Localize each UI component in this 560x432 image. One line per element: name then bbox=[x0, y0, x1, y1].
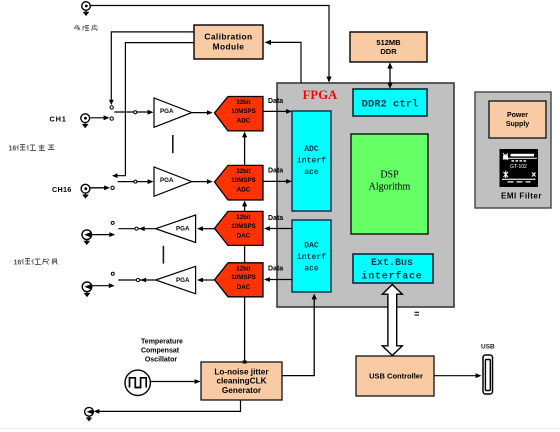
svg-text:ADC: ADC bbox=[304, 145, 319, 154]
power supply panel bbox=[475, 92, 551, 208]
svg-text:interf: interf bbox=[297, 253, 326, 262]
ADC interface block bbox=[292, 111, 331, 211]
svg-text:10MSPS: 10MSPS bbox=[231, 223, 255, 230]
label 16通道激励 bbox=[14, 259, 58, 267]
svg-text:Oscillator: Oscillator bbox=[145, 357, 178, 364]
svg-text:cleaningCLK: cleaningCLK bbox=[216, 377, 266, 386]
switch contact excitation2 bbox=[111, 272, 114, 275]
svg-text:Power: Power bbox=[507, 112, 528, 119]
wire switch to PGA2 bbox=[118, 179, 154, 184]
wire PGA4 to switch bbox=[118, 278, 155, 283]
wire DAC2 to PGA4 bbox=[197, 278, 215, 283]
svg-text:DAC: DAC bbox=[304, 242, 319, 251]
svg-text:16: 16 bbox=[9, 146, 17, 153]
wire PGA3 to switch bbox=[118, 226, 155, 231]
wire PGA2 to ADC2 bbox=[192, 179, 213, 184]
label Temperature Compensat Oscillator bbox=[141, 339, 183, 364]
512MB DDR memory bbox=[350, 32, 427, 62]
svg-text:Compensat: Compensat bbox=[141, 348, 180, 355]
svg-text:16: 16 bbox=[14, 260, 22, 267]
svg-text:DDR2 ctrl: DDR2 ctrl bbox=[362, 99, 419, 111]
more channels bar (excitation) bbox=[162, 246, 164, 264]
EMI filter photo label bbox=[500, 149, 539, 187]
DAC D2 (12bit 10MSPS) bbox=[215, 263, 264, 297]
svg-text:Lo-noise jitter: Lo-noise jitter bbox=[214, 368, 269, 377]
svg-text:PGA: PGA bbox=[176, 226, 190, 233]
wire ADC1 to ADC interface bbox=[263, 109, 292, 114]
equals mark near FPGA corner bbox=[415, 312, 420, 315]
svg-text:Calibration: Calibration bbox=[204, 32, 252, 42]
svg-text:12bit: 12bit bbox=[236, 266, 250, 273]
svg-text:CH1: CH1 bbox=[50, 115, 67, 124]
wire clock generator to clock output connector bbox=[94, 400, 241, 414]
wire ADC2 to ADC interface bbox=[263, 179, 292, 184]
wire USB controller to USB connector bbox=[434, 373, 482, 378]
Power Supply box bbox=[489, 101, 546, 138]
oscillator X1 bbox=[125, 370, 150, 395]
svg-text:32bit: 32bit bbox=[236, 168, 250, 175]
svg-text:CH16: CH16 bbox=[52, 185, 72, 194]
ADC A2 (32bit 10MSPS) bbox=[215, 165, 264, 200]
svg-text:interf: interf bbox=[297, 157, 326, 166]
DAC interface block bbox=[292, 220, 331, 292]
switch contact excitation1 bbox=[111, 221, 114, 224]
svg-text:Data: Data bbox=[268, 98, 283, 105]
wire PGA1 to ADC1 bbox=[192, 110, 213, 115]
svg-text:DAC: DAC bbox=[237, 284, 251, 291]
switch contact CH1 cal bbox=[110, 106, 113, 109]
external trigger connector J1 bbox=[82, 2, 91, 16]
svg-text:DAC: DAC bbox=[237, 233, 251, 240]
svg-text:EMI Filter: EMI Filter bbox=[501, 192, 542, 201]
op-amp PGA1 bbox=[154, 98, 192, 127]
DAC D1 (12bit 10MSPS) bbox=[215, 211, 264, 245]
svg-text:12bit: 12bit bbox=[236, 214, 250, 221]
Ext.Bus to USB controller block arrow bbox=[382, 285, 402, 356]
junction clock generator top bbox=[243, 361, 247, 364]
faint page edge bottom bbox=[0, 428, 560, 429]
svg-text:Data: Data bbox=[268, 266, 283, 273]
svg-text:Ext.Bus: Ext.Bus bbox=[371, 258, 413, 269]
connector clock out bbox=[85, 407, 94, 421]
wire switch to connector excitation2 bbox=[92, 283, 115, 288]
wire clock generator to DAC interface bbox=[282, 294, 317, 376]
label 外触发 bbox=[74, 25, 98, 32]
more channels bar (acquisition) bbox=[172, 135, 174, 153]
svg-text:Algorithm: Algorithm bbox=[369, 182, 411, 193]
connector excitation1 bbox=[82, 230, 92, 245]
wire switch to PGA1 bbox=[114, 110, 153, 115]
switch contact CH1 input bbox=[110, 117, 113, 120]
svg-text:Supply: Supply bbox=[506, 121, 529, 128]
svg-text:FPGA: FPGA bbox=[303, 88, 338, 102]
FPGA U1 bbox=[277, 83, 454, 307]
svg-text:PGA: PGA bbox=[160, 108, 174, 115]
wire trigger to FPGA bbox=[90, 6, 331, 83]
ADC A1 (32bit 10MSPS) bbox=[215, 97, 264, 131]
svg-text:Temperature: Temperature bbox=[141, 339, 183, 346]
connector excitation2 bbox=[82, 282, 92, 297]
svg-text:ADC: ADC bbox=[237, 118, 251, 125]
wire DAC1 to PGA3 bbox=[197, 226, 215, 231]
svg-text:Data: Data bbox=[268, 215, 283, 222]
wire DDR to DDR2 ctrl (double arrow) bbox=[387, 62, 392, 88]
switch contact CH16 input bbox=[111, 186, 114, 189]
DDR2 ctrl block bbox=[353, 89, 427, 116]
Ext.Bus interface block bbox=[353, 254, 433, 283]
connector CH1 bbox=[81, 114, 90, 128]
DSP Algorithm block bbox=[351, 134, 428, 234]
svg-text:10MSPS: 10MSPS bbox=[231, 274, 255, 281]
wire oscillator to clock generator bbox=[151, 379, 201, 384]
clock arrow into ADC1 bbox=[242, 132, 247, 166]
clock arrow into ADC2 bbox=[242, 201, 247, 212]
connector CH16 bbox=[81, 184, 90, 198]
svg-text:PGA: PGA bbox=[160, 177, 174, 184]
svg-text:PGA: PGA bbox=[176, 277, 190, 284]
clock line DAC1-DAC2 segment bbox=[244, 245, 246, 262]
svg-text:USB Controller: USB Controller bbox=[369, 372, 423, 381]
wire FPGA to calibration module bbox=[265, 40, 302, 83]
svg-text:ADC: ADC bbox=[237, 187, 251, 194]
wire calibration to CH16 switch bbox=[112, 43, 194, 179]
svg-text:DSP: DSP bbox=[380, 170, 399, 181]
svg-text:ace: ace bbox=[304, 168, 319, 177]
Calibration Module bbox=[194, 25, 263, 59]
svg-text:512MB: 512MB bbox=[376, 38, 401, 47]
USB Controller bbox=[356, 356, 434, 396]
wire CH16 to switch bbox=[90, 185, 110, 190]
op-amp PGA3 bbox=[156, 215, 196, 243]
wire calibration to CH1 switch bbox=[109, 32, 194, 105]
connector USB bbox=[483, 355, 493, 394]
svg-text:10MSPS: 10MSPS bbox=[231, 108, 255, 115]
svg-text:Data: Data bbox=[268, 168, 283, 175]
wire DAC interface to DAC1 bbox=[264, 226, 292, 231]
wire switch to connector excitation1 bbox=[92, 232, 116, 237]
svg-text:10MSPS: 10MSPS bbox=[231, 177, 255, 184]
svg-text:USB: USB bbox=[481, 344, 495, 351]
wire DAC interface to DAC2 bbox=[264, 277, 292, 282]
clock line DAC2 to clock generator bbox=[244, 297, 246, 362]
svg-text:DDR: DDR bbox=[380, 47, 397, 56]
svg-text:Module: Module bbox=[213, 42, 245, 52]
op-amp PGA2 bbox=[154, 167, 192, 196]
svg-text:interface: interface bbox=[361, 271, 422, 283]
wire CH1 to switch bbox=[90, 115, 110, 120]
svg-text:GT-102: GT-102 bbox=[510, 164, 527, 170]
clock generator bbox=[201, 362, 282, 400]
svg-text:Generator: Generator bbox=[222, 386, 262, 395]
svg-text:32bit: 32bit bbox=[236, 99, 250, 106]
op-amp PGA4 bbox=[156, 266, 196, 294]
svg-text:ace: ace bbox=[304, 265, 319, 274]
label 16通道采集 bbox=[9, 145, 55, 153]
